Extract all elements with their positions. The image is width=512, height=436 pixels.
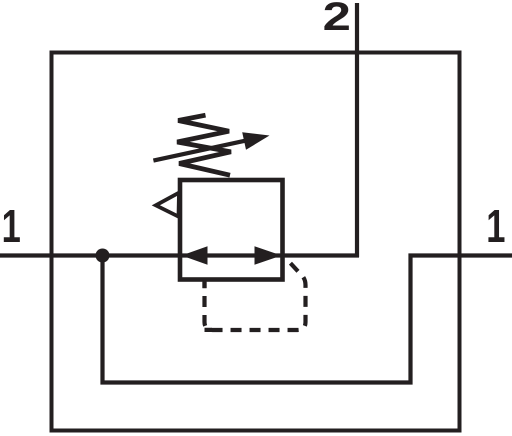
svg-text:1: 1 <box>486 200 505 252</box>
svg-text:2: 2 <box>323 0 351 39</box>
svg-text:1: 1 <box>2 200 21 252</box>
